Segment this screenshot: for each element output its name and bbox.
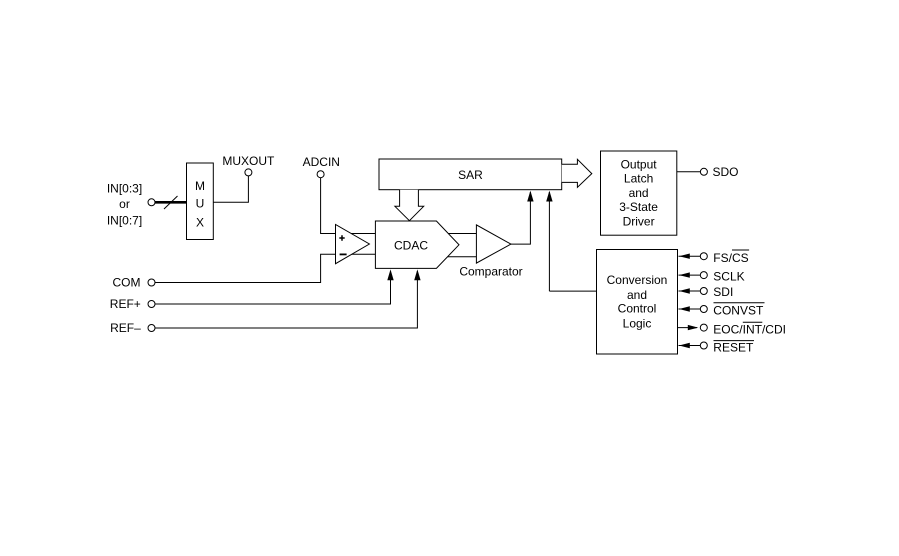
svg-text:SDO: SDO xyxy=(713,165,739,179)
svg-text:COM: COM xyxy=(113,276,141,290)
svg-text:M: M xyxy=(195,179,205,193)
svg-text:SCLK: SCLK xyxy=(713,269,744,283)
svg-text:and: and xyxy=(627,288,647,302)
svg-text:REF+: REF+ xyxy=(110,297,141,311)
svg-text:REF–: REF– xyxy=(110,321,141,335)
svg-text:Driver: Driver xyxy=(623,214,655,228)
svg-text:CONVST: CONVST xyxy=(713,303,764,317)
svg-text:and: and xyxy=(629,186,649,200)
svg-text:Comparator: Comparator xyxy=(459,264,522,278)
svg-text:EOC/INT/CDI: EOC/INT/CDI xyxy=(713,323,786,337)
svg-text:3-State: 3-State xyxy=(619,200,658,214)
svg-text:or: or xyxy=(119,197,130,211)
svg-text:ADCIN: ADCIN xyxy=(303,155,340,169)
svg-text:Logic: Logic xyxy=(623,316,652,330)
svg-text:IN[0:7]: IN[0:7] xyxy=(107,213,142,227)
svg-text:CDAC: CDAC xyxy=(394,238,428,252)
svg-text:IN[0:3]: IN[0:3] xyxy=(107,182,142,196)
svg-text:FS/CS: FS/CS xyxy=(713,251,748,265)
svg-text:SAR: SAR xyxy=(458,168,483,182)
svg-text:MUXOUT: MUXOUT xyxy=(222,154,275,168)
svg-text:U: U xyxy=(196,197,205,211)
svg-text:X: X xyxy=(196,216,204,230)
svg-text:Control: Control xyxy=(618,302,657,316)
svg-text:Conversion: Conversion xyxy=(607,273,668,287)
svg-text:SDI: SDI xyxy=(713,285,733,299)
svg-text:Output: Output xyxy=(621,157,658,171)
svg-text:Latch: Latch xyxy=(624,172,653,186)
svg-text:RESET: RESET xyxy=(713,340,754,354)
